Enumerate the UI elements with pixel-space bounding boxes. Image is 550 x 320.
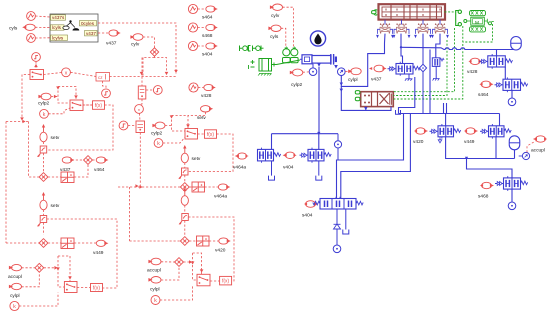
- switch block bl: [64, 282, 77, 293]
- wire: [198, 87, 204, 89]
- flow sensor cyl rod: [338, 68, 346, 76]
- svg-text:f(x): f(x): [93, 285, 101, 291]
- source accupl mid: [148, 258, 161, 265]
- svg-text:accupl: accupl: [531, 148, 545, 154]
- svg-text:v420: v420: [413, 139, 424, 145]
- svg-text:v437: v437: [106, 41, 117, 47]
- green shaft connector right: [456, 10, 462, 26]
- source s464: [206, 6, 218, 12]
- flow sensor bottom: [333, 245, 341, 253]
- source v420 mid: [219, 238, 231, 244]
- left drop V2: [341, 114, 411, 199]
- svg-text:v449: v449: [93, 250, 104, 256]
- wire: [184, 221, 186, 237]
- valve v437: [388, 62, 421, 76]
- valve left of v404: [258, 148, 281, 163]
- wire: [139, 113, 142, 121]
- wire: [189, 186, 192, 188]
- pipe prop valve bottom: [341, 86, 391, 110]
- rail x28 to diamond D1: [29, 122, 39, 178]
- wire: [43, 223, 45, 235]
- svg-text:M: M: [475, 20, 479, 26]
- svg-text:cylp2: cylp2: [151, 131, 163, 137]
- cylinder port arrow left: [317, 63, 321, 67]
- wire box2 feedback: [47, 219, 117, 288]
- wire mech to piston: [277, 60, 301, 65]
- svg-text:v404: v404: [283, 165, 294, 171]
- source accupl blue: [533, 136, 546, 142]
- svg-text:cyls: cyls: [270, 34, 279, 40]
- junction diamond D6: [39, 239, 48, 248]
- loop rails group1: [58, 87, 76, 101]
- wire: [160, 286, 193, 300]
- tank circle s468: [508, 202, 516, 210]
- valve s464: [495, 77, 528, 92]
- control block U1 frame: [50, 14, 98, 42]
- junction dot: [400, 46, 402, 48]
- switch block bm: [197, 274, 210, 286]
- wire fx mid feedback: [188, 134, 233, 172]
- source cylv input: [130, 34, 143, 41]
- source cylp2 group1: [38, 93, 51, 100]
- block internal icon: [63, 20, 80, 30]
- pipe rod side down: [318, 67, 320, 134]
- wire y241: [130, 240, 181, 242]
- svg-text:accupl: accupl: [8, 274, 22, 280]
- limiter box mid B9: [179, 214, 189, 225]
- svg-text:v420: v420: [215, 248, 226, 254]
- chip label v437s: [51, 15, 66, 20]
- svg-text:v464a: v464a: [214, 194, 227, 200]
- main line H1: [399, 77, 415, 114]
- clock C5: [119, 121, 128, 130]
- fx block bl: [91, 284, 103, 292]
- prop valve tank: [396, 110, 401, 114]
- wire: [35, 37, 50, 39]
- wire 0cyles to right rail: [98, 23, 176, 74]
- wire: [198, 8, 206, 10]
- clock C3: [153, 86, 162, 95]
- relief valve small: [432, 58, 444, 81]
- wire: [128, 125, 136, 127]
- chip label v437 output: [85, 31, 98, 36]
- demux box X2: [192, 182, 205, 192]
- source v420 blue: [416, 128, 428, 134]
- svg-text:s464: s464: [478, 92, 489, 98]
- source cylv top: [270, 4, 283, 10]
- junction diamond D3: [180, 237, 189, 246]
- wire: [92, 159, 96, 161]
- wire vertical from B5: [139, 133, 141, 188]
- k circle bm: [151, 296, 160, 305]
- source cylpl mid: [148, 277, 161, 284]
- switch block group1: [70, 100, 83, 111]
- wire: [44, 73, 62, 75]
- source s468: [206, 24, 218, 30]
- svg-text:s464: s464: [202, 15, 213, 21]
- svg-text:k: k: [154, 298, 157, 304]
- green tach wires: [393, 26, 463, 99]
- junction diamond D1: [39, 173, 48, 182]
- svg-text:s404: s404: [202, 52, 213, 58]
- svg-text:s468: s468: [202, 33, 213, 39]
- source cylpl left: [9, 283, 22, 289]
- tank below s404: [345, 209, 347, 230]
- junction diamond D2: [180, 183, 189, 192]
- source s404: [206, 43, 218, 49]
- manifold block: [379, 4, 446, 19]
- wire setv mid to loop: [188, 112, 206, 116]
- fx block mid: [205, 130, 217, 139]
- tall block B5: [136, 121, 145, 133]
- tank circle s464: [508, 98, 516, 106]
- mech sensor x: [283, 47, 291, 63]
- source cylp2 mid: [152, 122, 165, 129]
- source s468 blue: [482, 182, 494, 188]
- wire: [48, 176, 61, 178]
- compensator cluster 3: [414, 20, 432, 39]
- demux box X4: [61, 238, 74, 249]
- svg-text:v464: v464: [94, 167, 105, 173]
- wire B9 feedback: [188, 217, 234, 281]
- wire: [161, 261, 175, 263]
- demux box X1: [61, 172, 74, 183]
- svg-text:v437: v437: [60, 167, 71, 173]
- flow sensor mid right: [334, 134, 341, 160]
- fx block group1: [93, 101, 105, 110]
- source cylp2 blue side: [290, 69, 303, 76]
- pipe manifold to v437: [400, 34, 402, 48]
- wire: [161, 266, 179, 280]
- wire: [35, 61, 37, 69]
- wire: [72, 159, 84, 161]
- green engine output wire: [463, 24, 493, 42]
- svg-text:setv: setv: [51, 203, 60, 209]
- svg-text:setv: setv: [51, 135, 60, 141]
- pipe cluster3 down: [422, 34, 424, 50]
- left rail x6: [5, 122, 7, 244]
- svg-text:0cyles: 0cyles: [81, 21, 95, 26]
- svg-text:accupl: accupl: [147, 268, 161, 274]
- limiter box 2: [37, 216, 47, 227]
- svg-text:cylpl: cylpl: [10, 293, 20, 299]
- wire loop top: [142, 58, 144, 76]
- setv source 1: [40, 124, 47, 142]
- svg-text:s404: s404: [302, 213, 313, 219]
- svg-text:v437: v437: [86, 31, 96, 36]
- svg-text:cylpl: cylpl: [348, 77, 358, 83]
- engine block green: [464, 11, 494, 32]
- wire: [165, 125, 172, 127]
- junction arrow H2: [465, 157, 468, 160]
- wire: [35, 16, 50, 17]
- source v437 rowA: [62, 157, 74, 163]
- prop valve drain: [364, 107, 368, 111]
- source cyls: [22, 24, 35, 30]
- prop valve body: [361, 92, 394, 107]
- loop rails bl: [58, 256, 70, 282]
- svg-text:setv: setv: [192, 156, 201, 162]
- valve v420: [430, 124, 461, 139]
- wire: [345, 70, 351, 72]
- wire: [184, 175, 186, 183]
- source v464a left row: [235, 153, 247, 159]
- wire mid vertical x142: [141, 58, 143, 76]
- valve v420 drains: [438, 137, 442, 143]
- branch H2 to s468: [467, 159, 513, 178]
- limiter box mid B8: [178, 168, 188, 179]
- wire: [163, 137, 185, 143]
- gauge lcylvs: [27, 34, 36, 43]
- svg-text:k: k: [157, 141, 160, 147]
- pipe: [514, 150, 516, 159]
- svg-text:lcylvs: lcylvs: [52, 35, 64, 40]
- mech mass friction block: [249, 59, 277, 76]
- cylinder piston mass: [300, 55, 312, 64]
- fx block bm: [220, 276, 232, 285]
- chip label lcyls: [51, 25, 65, 30]
- wire: [43, 153, 45, 173]
- source s404 blue: [306, 201, 319, 208]
- wire: [184, 205, 186, 213]
- wire cyls sensor: [281, 28, 286, 48]
- check valve below s404: [334, 209, 341, 245]
- compensator cluster 2: [393, 20, 411, 39]
- wire: [98, 32, 109, 34]
- gauge circle blue: [519, 152, 530, 159]
- fluid properties icon: [310, 31, 325, 46]
- gauge s404: [188, 41, 197, 50]
- mech sensor v: [291, 47, 299, 63]
- svg-text:v464a: v464a: [233, 165, 246, 171]
- wire fx feedback right: [47, 105, 113, 150]
- wire rail x129: [129, 187, 131, 241]
- pipe cap to valve: [341, 34, 385, 87]
- wire cylv sensor: [283, 7, 294, 48]
- valve s404 3pos: [313, 197, 363, 209]
- check valve top: [419, 50, 426, 114]
- junction diamond cylv: [150, 48, 158, 56]
- multiplier circle x: [62, 68, 71, 77]
- svg-text:k: k: [43, 112, 46, 118]
- wire: [74, 242, 96, 244]
- source s464 blue: [481, 81, 493, 87]
- pipe v428 bottom: [504, 67, 506, 79]
- junction arrows: [140, 72, 144, 75]
- svg-text:v428: v428: [201, 93, 212, 99]
- supply wire top: [401, 47, 516, 49]
- wire: [103, 81, 107, 89]
- wire: [43, 210, 45, 216]
- wire: [48, 108, 70, 114]
- loop rails bm: [193, 253, 202, 275]
- wire: [210, 280, 220, 282]
- compensator cluster 1: [376, 20, 394, 39]
- mech spring-damper chain: [240, 46, 264, 52]
- source accupl left: [9, 264, 22, 270]
- svg-text:cylv: cylv: [271, 13, 280, 19]
- wire: [48, 242, 61, 244]
- svg-text:cyls: cyls: [9, 26, 18, 32]
- pipe s464 bottom tank: [511, 90, 513, 98]
- wire: [71, 72, 97, 76]
- svg-text:v449: v449: [464, 139, 475, 145]
- wire y187: [118, 186, 180, 188]
- wire: [83, 104, 93, 106]
- branch to v449: [499, 114, 501, 126]
- valve v428: [479, 54, 512, 69]
- loop rails mid: [172, 116, 189, 130]
- wire: [141, 77, 143, 87]
- wire: [22, 267, 35, 269]
- junction diamond rowA: [84, 156, 93, 165]
- valve s468: [495, 176, 528, 191]
- tall block B3: [138, 86, 146, 99]
- source v437 output: [109, 30, 121, 36]
- gauge cyls-top: [27, 12, 36, 21]
- wire B4 left to rail: [22, 75, 30, 120]
- pipe v428 top: [496, 50, 498, 56]
- manifold port connector green: [372, 10, 378, 15]
- prop valve pilot ports green: [355, 91, 360, 101]
- wire manifold to connector: [445, 11, 456, 13]
- demux box X3: [197, 236, 210, 246]
- source v428 mid: [204, 84, 216, 90]
- junction diamond D4: [175, 258, 184, 267]
- left drop V1: [337, 114, 404, 199]
- svg-text:cylp2: cylp2: [38, 101, 50, 107]
- wire: [140, 99, 143, 105]
- gauge v428 mid: [189, 83, 198, 92]
- source v464a mid: [218, 184, 230, 190]
- gauge s468: [188, 23, 197, 32]
- wire fx left: [82, 104, 93, 106]
- cylinder port arrow right: [334, 65, 338, 69]
- wire accupl gauge: [527, 141, 536, 152]
- clock C2: [102, 89, 111, 98]
- source v449 left: [96, 240, 108, 246]
- wire: [205, 186, 219, 188]
- wire: [77, 287, 91, 289]
- branch to v420: [445, 114, 447, 126]
- valve v449: [480, 124, 511, 139]
- source v464 rowA: [96, 157, 108, 163]
- wire: [303, 71, 309, 73]
- wire: [35, 26, 50, 28]
- wire: [43, 142, 45, 146]
- rate transition block B4: [30, 70, 44, 80]
- wire: [184, 163, 186, 168]
- wire: [198, 27, 206, 29]
- source cyls top: [268, 25, 281, 31]
- wire: [198, 45, 206, 47]
- accumulator top right: [511, 37, 522, 51]
- k circle mid: [154, 139, 163, 148]
- pump feed lines: [443, 103, 445, 114]
- svg-text:cylv: cylv: [131, 42, 140, 48]
- gauge s464: [188, 4, 197, 13]
- chip label 0cyles: [80, 21, 97, 26]
- wire: [189, 240, 196, 242]
- pipe wtop branch down: [429, 50, 431, 114]
- svg-text:cylp2: cylp2: [291, 82, 303, 88]
- wire D5 to loop: [44, 267, 58, 269]
- svg-text:v437s: v437s: [52, 15, 65, 20]
- junction diamond D5: [35, 263, 44, 272]
- svg-text:f(x): f(x): [222, 278, 230, 284]
- source cylpl blue side: [348, 68, 361, 75]
- wire D4 to loop: [183, 261, 192, 263]
- wire: [51, 96, 58, 98]
- svg-text:k: k: [13, 304, 16, 310]
- gauge g3: [32, 53, 41, 62]
- svg-text:x: x: [65, 70, 68, 76]
- svg-text:s468: s468: [478, 194, 489, 200]
- setv source mid2: [181, 145, 188, 163]
- valve v404 right: [300, 148, 332, 163]
- compensator cluster 4: [431, 20, 449, 39]
- junction arrow: [317, 132, 320, 135]
- pipe s468 tank: [511, 189, 513, 202]
- k circle group1: [40, 109, 49, 118]
- tanks v404 row: [272, 161, 319, 176]
- svg-text:v437: v437: [371, 77, 382, 83]
- wire: [198, 133, 205, 135]
- source v449 blue: [466, 128, 478, 134]
- valve v437 tank: [405, 74, 413, 81]
- wire: [22, 272, 40, 287]
- wire row y76: [110, 76, 177, 78]
- svg-text:cylpl: cylpl: [150, 287, 160, 293]
- source v404: [283, 152, 295, 158]
- source v437 blue side: [374, 65, 387, 72]
- pipe tops v404 row: [272, 133, 339, 135]
- transfer function block B2: [96, 73, 110, 82]
- source v428 blue: [470, 58, 482, 64]
- wire cylv to diamond: [143, 37, 155, 48]
- wire X1 to rowA: [74, 164, 88, 178]
- source setv mid: [201, 106, 214, 112]
- wire rail to D6: [6, 242, 39, 244]
- pressure sensor cyl head: [309, 64, 317, 76]
- switch block mid: [185, 129, 198, 140]
- k circle bl: [10, 301, 19, 310]
- svg-text:f(x): f(x): [207, 132, 215, 138]
- chip label lcylvs: [51, 35, 68, 40]
- pipe cluster4 down: [436, 34, 440, 58]
- setv source mid3: [181, 188, 188, 206]
- limiter box 1: [37, 146, 47, 157]
- wire: [515, 49, 517, 52]
- cylinder barrel: [312, 54, 337, 65]
- setv source 2: [40, 192, 47, 210]
- accumulator right: [509, 136, 520, 150]
- wire: [146, 89, 153, 91]
- svg-text:f(x): f(x): [95, 103, 103, 109]
- rail junction: [6, 121, 29, 123]
- return line H2: [446, 137, 515, 159]
- wire: [19, 293, 58, 307]
- mult circle star: [135, 105, 144, 116]
- svg-text:lcyls: lcyls: [52, 25, 62, 30]
- wire: [209, 240, 219, 242]
- svg-text:cz: cz: [98, 75, 103, 80]
- svg-text:v428: v428: [467, 69, 478, 75]
